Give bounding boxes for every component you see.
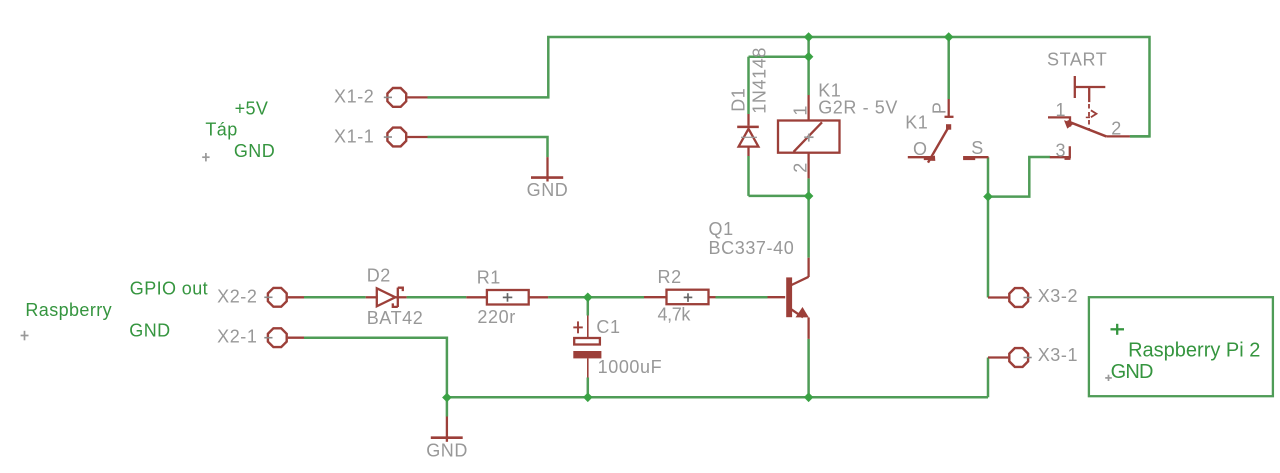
- svg-text:P: P: [930, 101, 950, 114]
- svg-text:GND: GND: [426, 441, 468, 461]
- svg-text:X2-1: X2-1: [217, 326, 257, 346]
- svg-text:Táp: Táp: [205, 120, 237, 140]
- svg-text:BAT42: BAT42: [367, 308, 424, 328]
- svg-text:GND: GND: [527, 180, 569, 200]
- svg-text:GND: GND: [1111, 361, 1153, 383]
- svg-text:GPIO out: GPIO out: [130, 279, 208, 299]
- svg-text:1N4148: 1N4148: [750, 47, 770, 114]
- svg-text:O: O: [913, 139, 928, 159]
- svg-text:S: S: [971, 138, 984, 158]
- svg-text:X2-2: X2-2: [217, 287, 257, 307]
- svg-text:C1: C1: [596, 317, 620, 337]
- svg-text:GND: GND: [129, 320, 170, 340]
- svg-text:3: 3: [1056, 140, 1067, 160]
- svg-text:D2: D2: [367, 266, 391, 286]
- svg-text:1000uF: 1000uF: [598, 357, 663, 377]
- svg-text:START: START: [1047, 50, 1107, 70]
- svg-text:R1: R1: [477, 267, 501, 287]
- svg-text:X3-1: X3-1: [1038, 345, 1078, 365]
- svg-text:4,7k: 4,7k: [658, 305, 692, 325]
- svg-text:Q1: Q1: [709, 219, 734, 239]
- svg-text:+5V: +5V: [235, 99, 269, 119]
- svg-text:2: 2: [791, 162, 811, 173]
- svg-text:D1: D1: [729, 88, 749, 112]
- svg-text:1: 1: [1056, 100, 1067, 120]
- svg-text:Raspberry: Raspberry: [25, 300, 112, 320]
- svg-text:2: 2: [1111, 118, 1122, 138]
- svg-text:X1-2: X1-2: [334, 87, 374, 107]
- svg-text:1: 1: [791, 105, 811, 116]
- svg-text:220r: 220r: [477, 307, 515, 327]
- svg-text:GND: GND: [234, 141, 275, 161]
- svg-text:K1: K1: [905, 113, 928, 133]
- svg-text:G2R - 5V: G2R - 5V: [818, 98, 898, 118]
- svg-text:BC337-40: BC337-40: [709, 238, 795, 258]
- svg-text:R2: R2: [658, 267, 682, 287]
- svg-text:Raspberry Pi 2: Raspberry Pi 2: [1128, 340, 1260, 362]
- svg-text:X1-1: X1-1: [334, 127, 374, 147]
- svg-text:X3-2: X3-2: [1038, 286, 1078, 306]
